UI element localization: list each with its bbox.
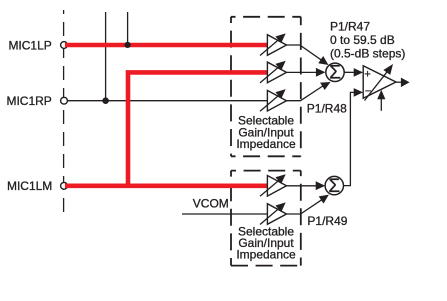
- svg-text:0 to 59.5 dB: 0 to 59.5 dB: [330, 33, 395, 47]
- junction on MIC1LP wire: [125, 42, 131, 48]
- amplifier A1 (MIC1LP VGA): [260, 33, 287, 55]
- pin MIC1LP: [61, 42, 68, 49]
- svg-text:Impedance: Impedance: [236, 247, 296, 261]
- wire MIC1RP: [66, 100, 268, 102]
- PGA output wire: [396, 78, 410, 88]
- selectable gain box 1 (dashed): [231, 17, 301, 157]
- svg-text:(0.5-dB steps): (0.5-dB steps): [330, 46, 405, 60]
- svg-text:Σ: Σ: [329, 63, 341, 84]
- label P1/R48: [307, 101, 347, 115]
- pin MIC1RP: [61, 97, 68, 104]
- label MIC1LM: [7, 179, 52, 193]
- wire B2 output to summer S2: [287, 195, 329, 214]
- chip boundary (dashed): [63, 10, 65, 215]
- wire A1 output to summer S1: [287, 45, 329, 65]
- label MIC1LP: [8, 39, 51, 53]
- wire A2 output to summer S1: [287, 68, 326, 77]
- svg-text:Σ: Σ: [328, 176, 340, 197]
- svg-text:P1/R48: P1/R48: [307, 101, 347, 115]
- svg-text:+: +: [364, 68, 370, 80]
- label MIC1RP: [6, 94, 51, 108]
- svg-text:MIC1RP: MIC1RP: [6, 94, 51, 108]
- wire MIC1RP-to-amp2 elbow (red): [128, 72, 268, 188]
- PGA gain control arrow: [377, 90, 385, 111]
- vertical wire to MIC1RP net: [127, 12, 129, 45]
- svg-text:P1/R47: P1/R47: [330, 19, 370, 33]
- label box1: Selectable Gain/Input Impedance: [236, 114, 296, 152]
- vertical wire to MIC1LP net: [105, 12, 107, 101]
- svg-text:MIC1LP: MIC1LP: [8, 39, 51, 53]
- wire VCOM: [182, 213, 268, 215]
- amplifier B1 (MIC1LM VGA): [260, 174, 287, 196]
- summer S1: [326, 63, 344, 84]
- svg-text:VCOM: VCOM: [193, 197, 229, 211]
- wire S2 output up to PGA - input: [344, 88, 363, 186]
- label P1/R49: [307, 214, 347, 228]
- amplifier B2 (VCOM VGA): [260, 202, 287, 224]
- wire S1 to PGA + input: [344, 68, 363, 77]
- label box2: Selectable Gain/Input Impedance: [236, 225, 296, 262]
- PGA variable-gain arrow: [365, 64, 394, 101]
- junction on MIC1RP wire: [102, 97, 109, 104]
- pin MIC1LM: [61, 182, 68, 189]
- svg-text:Impedance: Impedance: [236, 137, 296, 151]
- PGA U1 (0 to 59.5 dB): [363, 66, 396, 99]
- summer S2: [325, 176, 343, 197]
- wire A3 output to summer S1: [287, 82, 331, 101]
- wire MIC1LM (red): [65, 184, 268, 189]
- amplifier A3 (MIC1RP VGA): [260, 89, 287, 111]
- svg-text:MIC1LM: MIC1LM: [7, 179, 52, 193]
- selectable gain box 2 (dashed): [231, 171, 301, 266]
- wire MIC1LP (red): [65, 43, 268, 48]
- label P1/R47 block: [330, 19, 405, 60]
- svg-text:P1/R49: P1/R49: [307, 214, 347, 228]
- label VCOM: [193, 197, 229, 211]
- amplifier A2 (elbow VGA): [260, 61, 287, 83]
- wire B1 output to summer S2: [287, 181, 326, 190]
